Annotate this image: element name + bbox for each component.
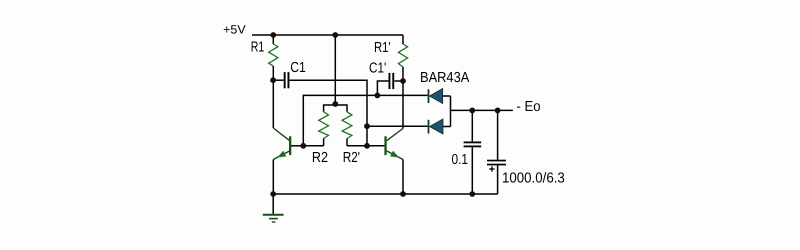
ground: [263, 194, 284, 222]
resistor R1': [398, 35, 407, 81]
wire Q2 base to diode D2: [367, 125, 428, 127]
capacitor C1: [273, 72, 289, 88]
svg-text:- Eo: - Eo: [517, 99, 541, 115]
junction ground rail/0.1: [469, 191, 475, 197]
capacitor 1000.0/6.3: [487, 110, 506, 194]
svg-text:0.1: 0.1: [452, 152, 469, 168]
svg-text:BAR43A: BAR43A: [420, 70, 470, 86]
junction output/0.1: [469, 108, 475, 114]
svg-text:+5V: +5V: [223, 23, 245, 37]
svg-text:R2': R2': [343, 150, 360, 166]
junction rail/R2 feed: [332, 32, 338, 38]
wire R2 feed from rail: [334, 35, 336, 105]
junction Q2 base/diode D2: [364, 123, 370, 129]
svg-text:1000.0/6.3: 1000.0/6.3: [502, 170, 565, 186]
svg-text:C1: C1: [290, 60, 306, 76]
wire diode anodes join: [450, 96, 452, 127]
junction Q2 collector node: [400, 78, 406, 84]
junction R2/R2' feed: [332, 101, 338, 107]
svg-text:R1': R1': [374, 40, 391, 56]
junction ground rail/emitter Q2: [400, 191, 406, 197]
svg-text:R2: R2: [312, 150, 328, 166]
resistor R2': [342, 112, 352, 146]
junction Q2 base node: [364, 143, 370, 149]
junction rail/R1: [270, 32, 276, 38]
wire +5V rail: [252, 34, 403, 36]
capacitor 0.1: [464, 110, 482, 194]
capacitor C1': [377, 73, 403, 96]
wire Q1 base to diode D1: [303, 95, 427, 145]
junction output/1000.0: [495, 108, 501, 114]
wire C1 to Q2 base node: [289, 80, 367, 146]
svg-text:C1': C1': [369, 60, 386, 76]
wire R2/R2' staple: [324, 105, 347, 112]
diode D2: [428, 119, 451, 134]
junction C1' tap on base line: [375, 93, 381, 99]
transistor Q2: [367, 81, 403, 194]
svg-text:R1: R1: [251, 39, 264, 55]
polarity plus of 1000.0/6.3: [489, 166, 494, 171]
wire output node: [451, 109, 513, 111]
junction Q1 collector node: [270, 77, 276, 83]
wire R2' bottom to Q2 base: [347, 145, 367, 147]
junction ground rail/emitter Q1: [270, 191, 276, 197]
resistor R1: [269, 35, 278, 80]
diode D1: [428, 89, 451, 104]
junction Q1 base node: [300, 143, 306, 149]
wire ground rail: [273, 193, 497, 195]
transistor Q1: [273, 80, 303, 194]
wire R2 bottom to Q1 base: [303, 145, 323, 147]
resistor R2: [319, 112, 329, 146]
